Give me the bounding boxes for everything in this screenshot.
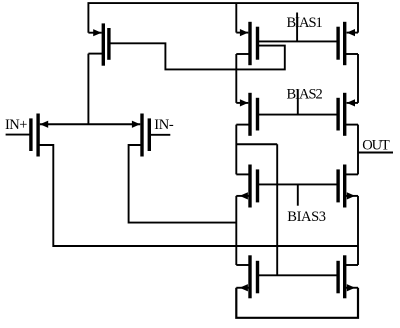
wire M3 drain down to M5 <box>235 54 237 103</box>
wire M6 drain down to M8 (OUT node) <box>357 125 359 175</box>
wire BIAS1 label tick <box>296 13 298 42</box>
transistor M5 (PMOS cascode, BIAS2 left) <box>236 93 257 136</box>
transistor M4 (PMOS current source, BIAS1 right) <box>338 22 358 65</box>
wire VDD top rail <box>88 3 358 33</box>
wire BIAS2 label tick <box>297 90 299 115</box>
transistor M10 (NMOS mirror, bottom right) <box>338 255 358 298</box>
wire BIAS3 label tick <box>297 184 299 205</box>
wire M9-M10 gate bus <box>258 274 339 276</box>
arrow on M10 source lead <box>347 284 355 291</box>
wire VDD drop to M3 <box>235 3 237 32</box>
wire M5 drain down to M7 <box>235 125 237 175</box>
wire BIAS1 gate bus <box>258 40 339 42</box>
wire VSS bottom rail <box>236 288 358 318</box>
arrow on M8 source lead <box>347 192 355 199</box>
wire M1 source down to diff-pair tail <box>87 54 89 125</box>
wire mirror tap horizontal <box>236 143 277 145</box>
arrow on M3 source lead <box>240 29 248 36</box>
svg-text:IN+: IN+ <box>5 117 27 133</box>
svg-text:BIAS3: BIAS3 <box>287 209 325 225</box>
wire BIAS3 gate bus <box>258 183 339 185</box>
svg-text:OUT: OUT <box>362 138 390 154</box>
svg-text:IN-: IN- <box>154 117 174 133</box>
svg-text:BIAS1: BIAS1 <box>287 15 323 31</box>
wire mirror tap vertical to M9-M10 gates <box>276 144 278 275</box>
transistor M3 (PMOS current source, BIAS1 left) <box>236 22 257 65</box>
arrow on M5 source lead <box>240 99 248 106</box>
wire M2 drain fold to left branch <box>129 145 237 223</box>
transistor M8 (NMOS cascode, BIAS3 right) <box>338 165 358 208</box>
wire M8 source down to M10 <box>357 196 359 265</box>
wire M4 drain down to M6 <box>357 54 359 103</box>
arrow on M9 source lead <box>240 284 248 291</box>
wire IN+ gate lead <box>6 134 31 136</box>
wire BIAS2 gate bus <box>258 114 339 116</box>
arrow on IN- device source lead <box>132 121 140 128</box>
svg-text:BIAS2: BIAS2 <box>287 87 323 103</box>
transistor M2 (PMOS input device IN-) <box>129 114 150 157</box>
arrow on M4 source lead <box>347 29 355 36</box>
wire M7 source down to M9 <box>235 196 237 265</box>
wire M1a drain fold to right branch <box>38 145 358 246</box>
wire M1 gate bias route <box>111 43 285 69</box>
arrow on M1 source lead <box>93 29 101 36</box>
arrow on M6 source lead <box>347 99 355 106</box>
arrow on IN+ device source lead <box>40 121 48 128</box>
wire OUT stub <box>358 152 393 154</box>
transistor M9 (NMOS mirror, bottom left) <box>236 255 257 298</box>
wire IN- gate lead <box>149 134 170 136</box>
transistor M1 (PMOS tail current source, top-left) <box>88 23 109 65</box>
transistor M6 (PMOS cascode, BIAS2 right) <box>338 93 358 136</box>
arrow on M7 source lead <box>240 192 248 199</box>
transistor M7 (NMOS cascode, BIAS3 left) <box>236 165 257 208</box>
wire diff pair tail bar <box>40 123 141 125</box>
transistor M1a (PMOS input device IN+) <box>31 114 53 157</box>
